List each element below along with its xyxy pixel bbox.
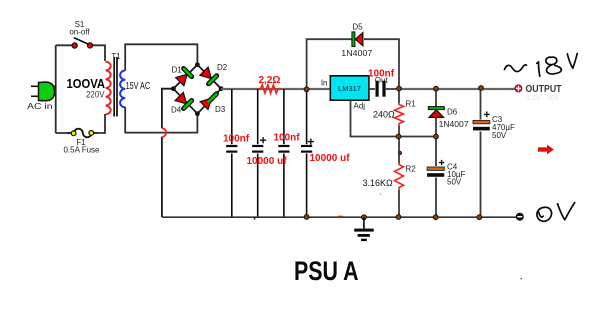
svg-text:on-off: on-off: [69, 28, 90, 37]
svg-text:2,2Ω: 2,2Ω: [259, 75, 281, 86]
svg-text:1N4007: 1N4007: [439, 120, 470, 129]
svg-text:100nf: 100nf: [368, 69, 395, 80]
svg-text:R2: R2: [406, 165, 417, 174]
svg-text:OUTPUT: OUTPUT: [526, 84, 563, 95]
svg-text:0.5A Fuse: 0.5A Fuse: [63, 146, 100, 155]
svg-text:100nf: 100nf: [223, 134, 250, 145]
svg-text:D4: D4: [171, 105, 182, 114]
svg-text:LM317: LM317: [338, 84, 361, 93]
svg-text:R1: R1: [406, 100, 417, 109]
svg-text:220V: 220V: [86, 89, 105, 99]
svg-text:1N4007: 1N4007: [341, 49, 373, 58]
svg-text:100nf: 100nf: [274, 133, 301, 144]
svg-text:D2: D2: [217, 63, 228, 72]
svg-text:D5: D5: [352, 23, 363, 32]
svg-text:D6: D6: [447, 108, 458, 117]
svg-text:15V AC: 15V AC: [126, 81, 151, 92]
svg-text:PSU A: PSU A: [294, 256, 359, 286]
svg-text:D1: D1: [172, 66, 183, 75]
svg-text:10000 uf: 10000 uf: [247, 156, 288, 167]
svg-text:3.16KΩ: 3.16KΩ: [363, 178, 394, 188]
svg-text:In: In: [321, 79, 328, 88]
svg-text:AC in: AC in: [27, 102, 53, 111]
svg-text:D3: D3: [215, 105, 226, 114]
svg-text:50V: 50V: [447, 178, 462, 187]
svg-text:1.2V - 30V: 1.2V - 30V: [526, 95, 559, 102]
svg-text:Adj: Adj: [354, 102, 366, 111]
svg-text:240Ω: 240Ω: [373, 110, 395, 120]
svg-text:50V: 50V: [492, 131, 507, 140]
svg-text:10000 uf: 10000 uf: [310, 153, 351, 164]
